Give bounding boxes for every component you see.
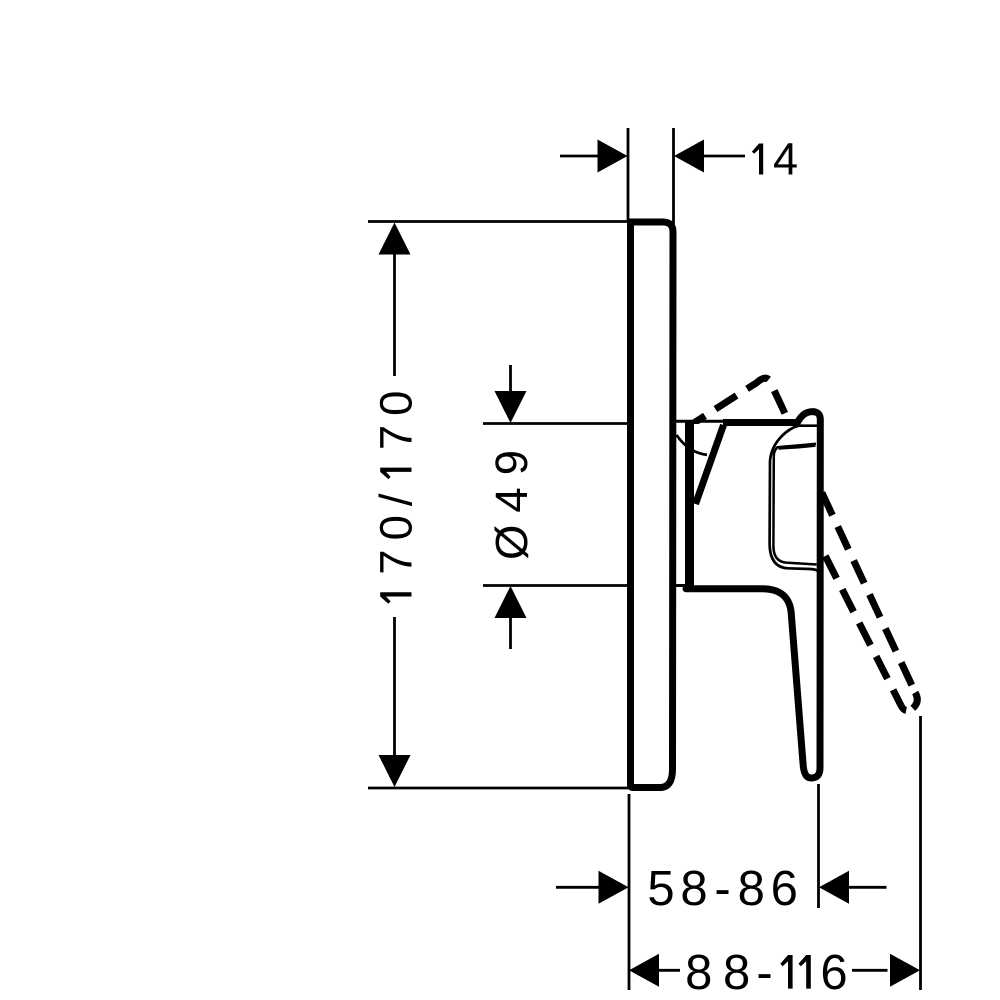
- cartridge sleeve left edge: [685, 422, 694, 588]
- svg-text:8: 8: [680, 862, 707, 916]
- dim 14: right extension line: [672, 128, 675, 251]
- dim 170/170: label: [371, 382, 422, 604]
- svg-text:6: 6: [771, 862, 798, 916]
- dim 88-116: right arrowhead: [890, 954, 920, 987]
- dim 14: right arrow tail: [703, 155, 745, 158]
- dim 170/170: lower stem: [393, 617, 396, 757]
- svg-text:70/: 70/: [371, 484, 422, 574]
- bottom left extension line: [628, 794, 631, 990]
- svg-text:5: 5: [647, 862, 674, 916]
- dim 14: right arrowhead: [674, 140, 704, 173]
- svg-text:8: 8: [738, 862, 765, 916]
- handle top edge: [723, 419, 798, 426]
- dim 14: left arrow tail: [560, 155, 600, 158]
- dim 58-86: left arrow tail: [556, 886, 599, 889]
- svg-text:-: -: [756, 946, 772, 1000]
- dim 170/170: top arrowhead: [379, 223, 411, 255]
- dim Ø49: bottom arrowhead: [495, 586, 527, 618]
- dim Ø49: bottom stem: [509, 617, 512, 649]
- escutcheon plate (side profile): [631, 222, 674, 788]
- dim 88-116: right stub: [852, 969, 888, 972]
- sleeve top thin line: [675, 420, 728, 423]
- dim Ø49: top arrowhead: [495, 391, 527, 423]
- dashed lever inner rail: [760, 427, 913, 711]
- handle window outer contour: [770, 426, 819, 572]
- dim 170/170: bottom extension line: [368, 787, 629, 790]
- dim 14: left arrowhead: [598, 140, 628, 173]
- svg-text:Ø49: Ø49: [486, 438, 537, 560]
- dashed lever tip extension line: [919, 716, 922, 990]
- svg-text:8: 8: [723, 946, 750, 1000]
- dim 88-116: left stub: [658, 969, 680, 972]
- dashed lever upper edge and outer rail: [692, 378, 915, 690]
- svg-text:70: 70: [371, 382, 422, 451]
- white fill of handle body (hides hidden dash segments): [692, 424, 818, 586]
- window inner sliver line: [779, 446, 816, 449]
- dim Ø49: bottom line: [483, 584, 627, 587]
- sleeve bottom thin line: [675, 584, 691, 587]
- handle hump, right edge, lever outline: [686, 412, 820, 778]
- svg-text:6: 6: [820, 946, 847, 1000]
- dim 14: label: [752, 144, 763, 175]
- dim 88-116: left arrowhead: [629, 954, 659, 987]
- dashed lever (open position): [692, 378, 918, 710]
- funnel flare arc: [677, 435, 708, 455]
- dim 14: left extension line: [627, 128, 630, 220]
- solid lever tip extension line: [817, 784, 820, 908]
- svg-text:-: -: [714, 862, 730, 916]
- dim 58-86: right arrowhead: [819, 871, 849, 904]
- svg-text:4: 4: [773, 134, 798, 185]
- dim 170/170: bottom arrowhead: [379, 755, 411, 787]
- handle window inner contour: [773, 444, 816, 565]
- dim 170/170: upper stem: [393, 253, 396, 376]
- funnel cone diagonal: [696, 425, 724, 504]
- svg-text:8: 8: [685, 946, 712, 1000]
- dim 58-86: left arrowhead: [599, 871, 629, 904]
- dim Ø49: top stem: [509, 365, 512, 395]
- dim Ø49: top line: [483, 422, 627, 425]
- dim 170/170: top extension line: [368, 220, 627, 223]
- dim 58-86: right arrow tail: [848, 886, 887, 889]
- dashed lever tip outer corner: [913, 693, 917, 709]
